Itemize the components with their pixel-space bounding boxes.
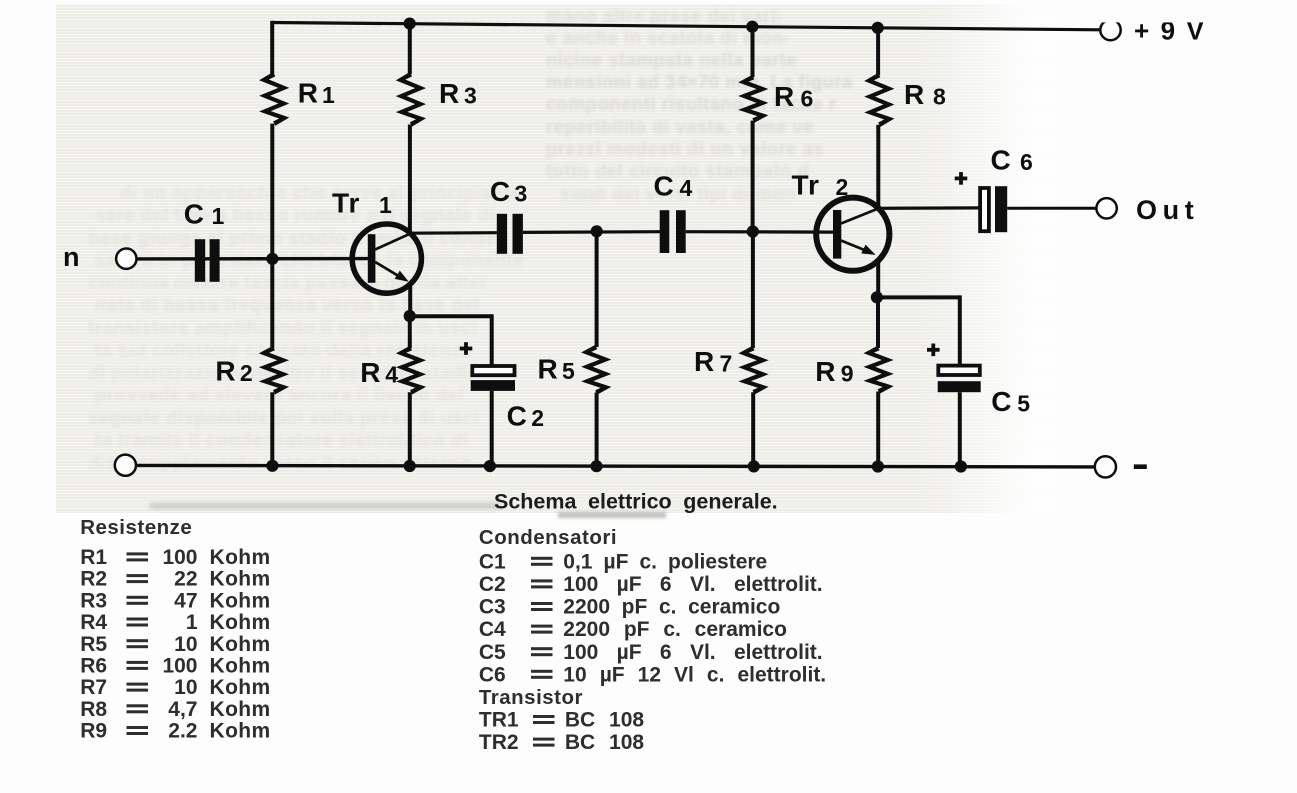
wire R6 top bbox=[751, 27, 755, 77]
svg-text:R1: R1 bbox=[80, 546, 107, 569]
svg-text:4: 4 bbox=[385, 362, 398, 388]
svg-text:10 µF 12 Vl c. elettrolit.: 10 µF 12 Vl c. elettrolit. bbox=[563, 663, 826, 686]
wire C3 to node D bbox=[523, 230, 660, 234]
wire C5 to bottom rail bbox=[958, 392, 962, 467]
wire node D to R5 bbox=[595, 231, 599, 347]
svg-text:C4: C4 bbox=[479, 618, 506, 641]
node top rail R8 bbox=[872, 22, 884, 34]
svg-text:C2: C2 bbox=[479, 573, 506, 596]
svg-text:2: 2 bbox=[836, 174, 849, 200]
svg-text:100: 100 bbox=[162, 655, 197, 678]
svg-text:Schema elettrico generale.: Schema elettrico generale. bbox=[494, 489, 778, 513]
svg-text:C: C bbox=[654, 170, 674, 201]
label R1 bbox=[298, 78, 335, 109]
svg-text:10: 10 bbox=[174, 676, 197, 699]
capacitor C2 (electrolytic) bbox=[471, 366, 515, 391]
svg-text:6: 6 bbox=[801, 86, 814, 112]
label C6 plus bbox=[955, 172, 968, 185]
wire R8 to Tr2 collector bbox=[876, 125, 880, 209]
capacitor C3 bbox=[497, 214, 523, 254]
label R9 bbox=[815, 356, 853, 387]
svg-text:R: R bbox=[360, 357, 380, 388]
svg-text:R: R bbox=[538, 353, 558, 384]
svg-text:R: R bbox=[439, 78, 459, 109]
label R5 bbox=[538, 353, 576, 384]
label minus bbox=[1134, 464, 1147, 469]
wire R6 to node E bbox=[751, 121, 755, 232]
svg-text:R2: R2 bbox=[80, 568, 107, 591]
svg-text:Kohm: Kohm bbox=[210, 720, 271, 743]
svg-text:Kohm: Kohm bbox=[210, 546, 271, 569]
node bottom rail F bbox=[872, 460, 884, 472]
svg-text:8: 8 bbox=[933, 84, 946, 110]
label C5 bbox=[991, 386, 1030, 417]
node Tr2 emitter junction bbox=[871, 291, 883, 303]
label C4 bbox=[654, 170, 693, 201]
label Tr1 bbox=[332, 188, 392, 219]
svg-text:C: C bbox=[490, 176, 510, 207]
wire R5 to bottom rail bbox=[595, 393, 599, 467]
terminal negative right bbox=[1095, 456, 1116, 477]
wire R4 to bottom rail bbox=[408, 392, 412, 466]
svg-text:Kohm: Kohm bbox=[210, 633, 271, 656]
svg-text:C3: C3 bbox=[479, 596, 506, 619]
svg-text:1: 1 bbox=[186, 611, 198, 634]
label +9 V bbox=[1093, 8, 1223, 46]
label C2 bbox=[507, 400, 544, 431]
svg-text:2200 pF c. ceramico: 2200 pF c. ceramico bbox=[563, 618, 787, 641]
svg-text:3: 3 bbox=[515, 180, 528, 206]
parts list resistor rows bbox=[80, 546, 270, 743]
wire Tr2 emitter node to R9 bbox=[876, 297, 880, 348]
wire R3 to Tr1 collector bbox=[408, 125, 412, 234]
svg-text:2.2: 2.2 bbox=[168, 720, 197, 743]
svg-text:Kohm: Kohm bbox=[210, 611, 271, 634]
parts list transistor header bbox=[479, 686, 583, 709]
svg-text:4,7: 4,7 bbox=[168, 698, 197, 721]
svg-text:C: C bbox=[991, 386, 1011, 417]
capacitor C6 (electrolytic) bbox=[980, 186, 1007, 232]
svg-text:5: 5 bbox=[1017, 390, 1030, 416]
svg-text:Condensatori: Condensatori bbox=[479, 526, 617, 549]
svg-text:0,1 µF c. poliestere: 0,1 µF c. poliestere bbox=[563, 550, 767, 573]
node bottom rail D bbox=[590, 460, 602, 472]
parts list transistor rows bbox=[479, 709, 645, 755]
resistor R2 bbox=[259, 346, 289, 395]
wire emitter node to C2 bbox=[410, 314, 492, 366]
svg-text:100 µF 6 Vl. elettrolit.: 100 µF 6 Vl. elettrolit. bbox=[563, 573, 822, 596]
terminal bottom-left bbox=[115, 455, 136, 476]
svg-text:Tr: Tr bbox=[792, 169, 820, 200]
svg-text:R: R bbox=[215, 355, 235, 386]
wire C6 to Out bbox=[1007, 207, 1096, 210]
svg-text:TR1: TR1 bbox=[479, 709, 519, 732]
svg-text:C: C bbox=[507, 400, 527, 431]
node Tr1 emitter junction bbox=[404, 310, 416, 322]
svg-text:R9: R9 bbox=[80, 720, 107, 743]
ghost show-through magazine text bbox=[0, 0, 1297, 1]
svg-text:10: 10 bbox=[174, 633, 197, 656]
resistor R1 bbox=[259, 72, 289, 126]
svg-text:R7: R7 bbox=[80, 676, 107, 699]
wire R1 to input node bbox=[270, 124, 274, 259]
wire input node to R2 bbox=[270, 259, 274, 348]
svg-text:Kohm: Kohm bbox=[210, 676, 271, 699]
svg-text:100 µF 6 Vl. elettrolit.: 100 µF 6 Vl. elettrolit. bbox=[563, 641, 822, 664]
transistor Tr1 bbox=[352, 224, 421, 317]
resistor R7 bbox=[738, 346, 768, 395]
svg-text:C: C bbox=[184, 199, 204, 230]
svg-text:R5: R5 bbox=[80, 633, 107, 656]
wire +9V top rail bbox=[272, 23, 1101, 30]
caption bbox=[494, 489, 778, 513]
wire Tr2 collector to C6 bbox=[878, 206, 978, 210]
label Out bbox=[1136, 195, 1199, 225]
label R2 bbox=[215, 355, 252, 386]
svg-text:1: 1 bbox=[322, 82, 335, 108]
svg-text:9: 9 bbox=[841, 361, 854, 387]
terminal In bbox=[116, 249, 136, 269]
svg-text:R: R bbox=[904, 79, 924, 110]
svg-text:Kohm: Kohm bbox=[210, 568, 271, 591]
node bottom rail C5 bbox=[955, 460, 967, 472]
label C3 bbox=[490, 176, 527, 207]
parts list capacitor rows bbox=[479, 550, 826, 686]
resistor R6 bbox=[738, 75, 768, 123]
svg-text:C5: C5 bbox=[479, 641, 506, 664]
svg-text:R4: R4 bbox=[80, 611, 107, 634]
wire R2 to bottom rail bbox=[270, 392, 274, 466]
resistor R4 bbox=[396, 346, 426, 395]
label R6 bbox=[774, 81, 813, 112]
svg-text:Out: Out bbox=[1136, 195, 1199, 225]
node bottom rail B bbox=[404, 460, 416, 472]
svg-text:R: R bbox=[815, 356, 835, 387]
svg-text:TR2: TR2 bbox=[479, 731, 519, 754]
svg-text:Resistenze: Resistenze bbox=[80, 516, 192, 539]
svg-text:Transistor: Transistor bbox=[479, 686, 583, 709]
svg-text:C1: C1 bbox=[479, 550, 506, 573]
svg-text:2200 pF c. ceramico: 2200 pF c. ceramico bbox=[563, 596, 780, 619]
capacitor C1 bbox=[195, 239, 220, 282]
svg-text:C6: C6 bbox=[479, 663, 506, 686]
wire emitter node to C5 bbox=[878, 295, 960, 365]
wire C2 to bottom rail bbox=[490, 391, 494, 466]
wire R8 top bbox=[876, 28, 880, 75]
capacitor C5 (electrolytic) bbox=[938, 366, 981, 393]
svg-text:Kohm: Kohm bbox=[210, 655, 271, 678]
node bottom rail A bbox=[266, 460, 278, 472]
node interstage D bbox=[591, 225, 603, 237]
resistor R8 bbox=[864, 73, 894, 127]
svg-text:BC 108: BC 108 bbox=[565, 731, 645, 754]
node Tr2 base column E bbox=[747, 225, 759, 237]
node top rail R6 bbox=[746, 21, 758, 33]
label C6 bbox=[991, 144, 1033, 175]
svg-text:1: 1 bbox=[212, 203, 225, 229]
svg-text:3: 3 bbox=[464, 83, 477, 109]
svg-text:1: 1 bbox=[379, 192, 392, 218]
resistor R9 bbox=[864, 346, 894, 394]
wire Tr1 emitter node to R4 bbox=[408, 316, 412, 348]
parts list capacitors header bbox=[479, 526, 617, 549]
node input junction bbox=[266, 253, 278, 265]
resistor R5 bbox=[581, 345, 611, 395]
scan streak below schematic bbox=[150, 503, 500, 509]
node top rail R3 bbox=[404, 18, 416, 30]
wire C4 to Tr2 base bbox=[686, 230, 834, 234]
wire R1 column top bbox=[270, 21, 274, 74]
svg-text:R: R bbox=[774, 81, 794, 112]
wire input to Tr1 base bbox=[136, 257, 368, 261]
wire Tr1 collector to C3 bbox=[410, 231, 497, 235]
label C5 plus bbox=[927, 344, 940, 357]
wire R7 to bottom rail bbox=[751, 392, 755, 466]
svg-text:R: R bbox=[694, 346, 714, 377]
svg-text:R8: R8 bbox=[80, 698, 107, 721]
svg-text:100: 100 bbox=[162, 546, 197, 569]
label C1 bbox=[184, 199, 225, 230]
svg-text:2: 2 bbox=[531, 405, 544, 431]
label Tr2 bbox=[792, 169, 849, 200]
label R3 bbox=[439, 78, 477, 109]
label C2 plus bbox=[460, 342, 473, 355]
terminal +9V bbox=[1100, 20, 1120, 40]
wire R9 to bottom rail bbox=[876, 392, 880, 467]
label R4 bbox=[360, 357, 398, 388]
svg-text:7: 7 bbox=[720, 351, 733, 377]
svg-text:4: 4 bbox=[680, 175, 693, 201]
svg-text:R6: R6 bbox=[80, 655, 107, 678]
terminal Out bbox=[1096, 198, 1116, 218]
resistor R3 bbox=[396, 72, 426, 127]
svg-text:5: 5 bbox=[562, 358, 575, 384]
wire node E to R7 bbox=[751, 232, 755, 349]
node bottom rail E bbox=[748, 460, 760, 472]
label R7 bbox=[694, 346, 732, 377]
svg-text:BC 108: BC 108 bbox=[565, 709, 645, 732]
wire bottom negative rail bbox=[136, 465, 1096, 467]
svg-text:R3: R3 bbox=[80, 589, 107, 612]
svg-text:Tr: Tr bbox=[332, 188, 360, 219]
wire R3 top bbox=[408, 24, 412, 75]
svg-text:2: 2 bbox=[240, 360, 253, 386]
svg-text:Kohm: Kohm bbox=[210, 698, 271, 721]
label R8 bbox=[904, 79, 946, 110]
svg-text:22: 22 bbox=[174, 568, 197, 591]
parts list resistors header bbox=[80, 516, 192, 539]
svg-text:R: R bbox=[298, 78, 318, 109]
transistor Tr2 bbox=[816, 198, 889, 298]
node bottom rail C2 bbox=[484, 460, 496, 472]
label n bbox=[63, 242, 80, 272]
svg-text:n: n bbox=[63, 242, 80, 272]
svg-text:6: 6 bbox=[1020, 149, 1033, 175]
svg-text:47: 47 bbox=[174, 589, 197, 612]
svg-text:Kohm: Kohm bbox=[210, 589, 271, 612]
capacitor C4 bbox=[660, 210, 686, 253]
svg-text:C: C bbox=[991, 144, 1011, 175]
